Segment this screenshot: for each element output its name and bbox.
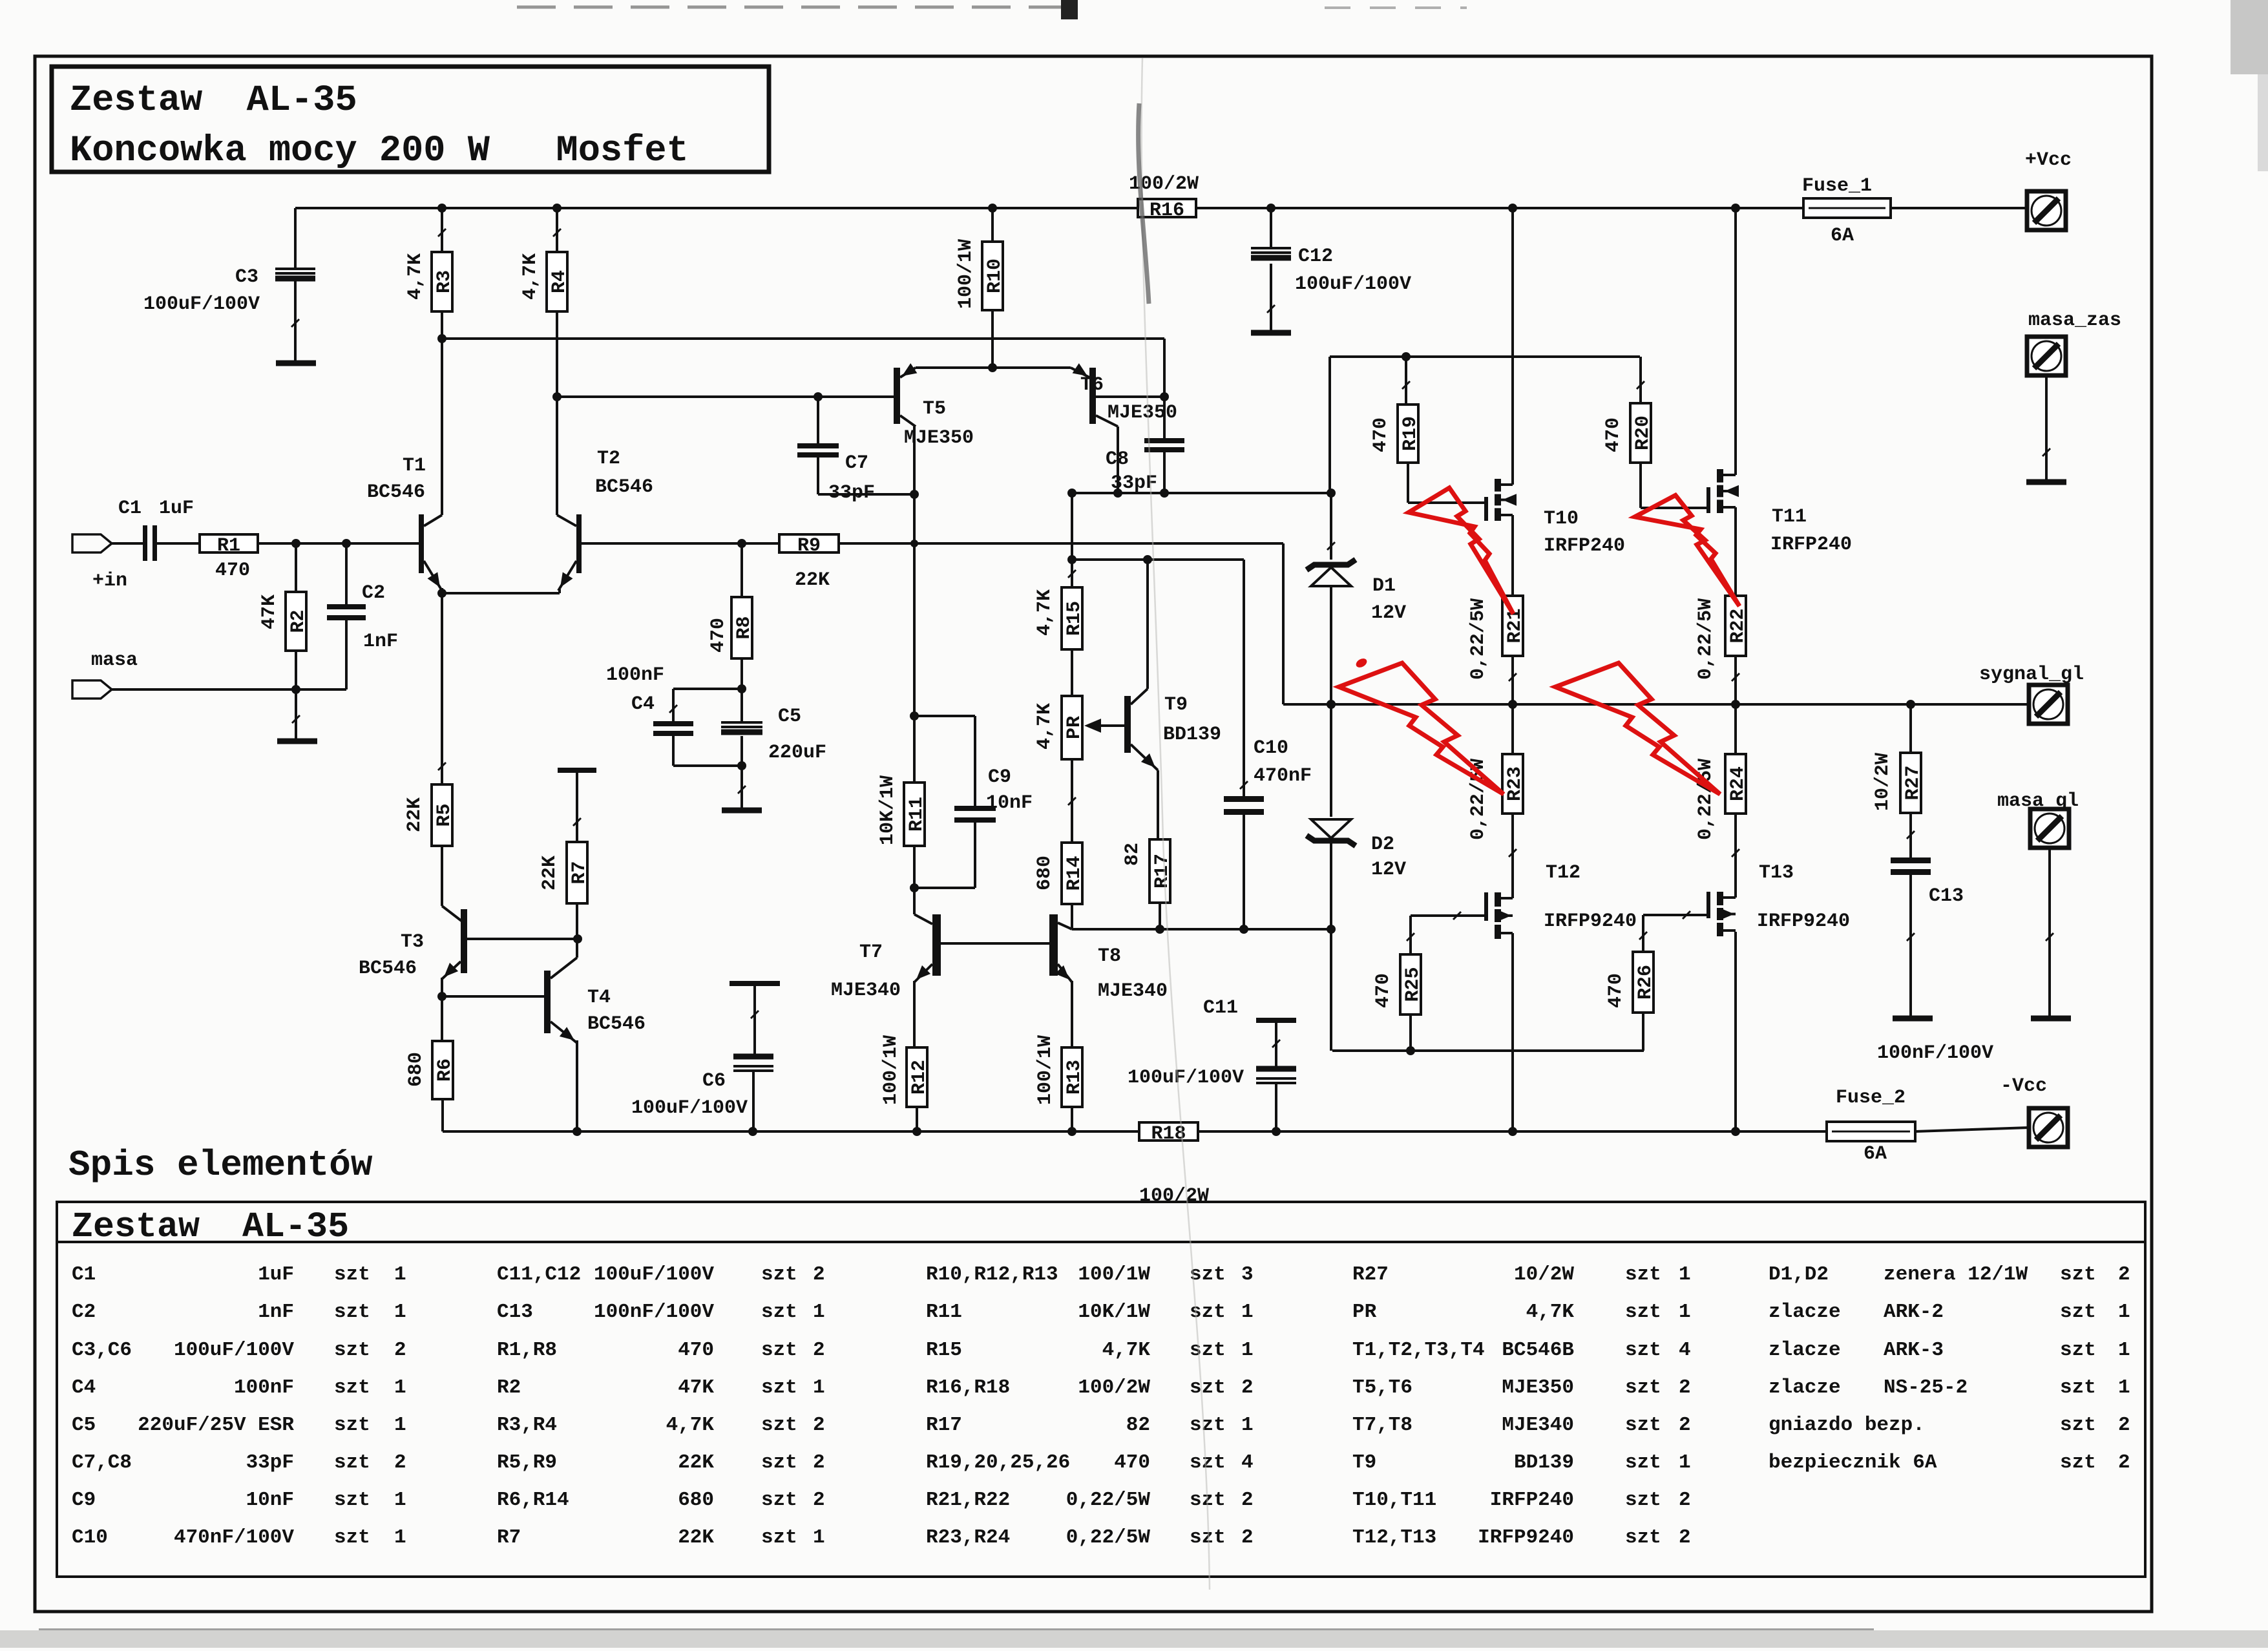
- svg-text:2: 2: [1679, 1489, 1691, 1511]
- table row c1 r4: [72, 1376, 406, 1399]
- wire T6 collector diag: [1096, 415, 1118, 426]
- wire R3 top: [441, 208, 443, 252]
- label sygnal_gl: [1979, 664, 2084, 686]
- label D2 value: [1371, 859, 1406, 881]
- connector -Vcc: [2029, 1108, 2068, 1147]
- connector +in: [72, 534, 112, 552]
- svg-text:C5: C5: [72, 1414, 96, 1436]
- resistor R6: [432, 1041, 456, 1099]
- wire T13 gate line: [1643, 911, 1708, 919]
- connector masa_gl: [2030, 809, 2069, 848]
- wire masa_gl stem: [2046, 848, 2053, 1016]
- svg-text:100uF/100V: 100uF/100V: [631, 1097, 748, 1119]
- svg-text:100/1W: 100/1W: [1034, 1035, 1056, 1105]
- label R15 value: [1034, 589, 1056, 636]
- svg-text:T12: T12: [1546, 862, 1580, 884]
- svg-text:470: 470: [708, 618, 730, 653]
- svg-text:szt: szt: [761, 1263, 797, 1286]
- wire R23 top: [1511, 704, 1514, 754]
- wire C7 bottom: [818, 457, 914, 494]
- label R16 value: [1129, 173, 1199, 195]
- svg-text:12V: 12V: [1371, 602, 1406, 624]
- svg-text:szt: szt: [334, 1451, 370, 1474]
- svg-text:R5: R5: [434, 803, 456, 826]
- wire C12 top stem: [1270, 208, 1272, 247]
- table row c1 r7: [72, 1489, 406, 1511]
- label R8 value: [708, 618, 730, 653]
- label Fuse_2: [1836, 1087, 1906, 1109]
- table row c4 r6: [1352, 1451, 1691, 1474]
- title box: [52, 67, 769, 172]
- wire R20 stem top: [1637, 357, 1644, 403]
- wire R19 stem top: [1402, 357, 1410, 405]
- wire T3 emitter diag: [442, 962, 461, 979]
- table row c4 r3: [1352, 1339, 1691, 1362]
- svg-text:T10: T10: [1544, 508, 1579, 530]
- label masa_gl: [1997, 790, 2079, 812]
- wire C6 top stem: [751, 986, 759, 1054]
- svg-text:R27: R27: [1902, 765, 1924, 800]
- wire T9 emitter: [1131, 744, 1158, 839]
- label T4 type: [587, 1013, 646, 1035]
- wire R20 to T11 gate: [1641, 463, 1706, 508]
- label R9 value: [795, 569, 830, 591]
- svg-text:-Vcc: -Vcc: [2000, 1075, 2047, 1097]
- wire T1 collector net to C8: [442, 337, 1164, 340]
- label R21 value: [1467, 598, 1489, 680]
- label T5: [923, 398, 946, 420]
- wire R25 bottom stem: [1409, 1015, 1412, 1051]
- label R25 value: [1372, 973, 1394, 1008]
- svg-text:szt: szt: [1625, 1301, 1661, 1323]
- table row c5 r2: [1769, 1301, 2130, 1323]
- capacitor C1: [143, 525, 157, 561]
- label R22 value: [1695, 598, 1717, 680]
- label D1: [1372, 575, 1396, 597]
- node output-chain: [1327, 700, 1336, 709]
- svg-text:100/2W: 100/2W: [1078, 1376, 1150, 1399]
- svg-text:100uF/100V: 100uF/100V: [594, 1263, 714, 1286]
- label +Vcc: [2025, 149, 2072, 171]
- svg-text:1: 1: [1241, 1414, 1254, 1436]
- svg-text:22K: 22K: [678, 1526, 714, 1549]
- label R20 value: [1602, 417, 1624, 452]
- node emitters T5 T6: [988, 363, 997, 372]
- resistor R4: [547, 252, 571, 311]
- resistor R25: [1400, 954, 1424, 1015]
- fuse Fuse_1: [1803, 198, 1891, 218]
- wire T12 gate line: [1411, 912, 1484, 920]
- svg-text:R6,R14: R6,R14: [497, 1489, 569, 1511]
- wire output line: [1283, 703, 2029, 706]
- node masa-R2: [291, 685, 300, 694]
- label C13 value: [1877, 1042, 1993, 1064]
- label T3: [401, 931, 424, 953]
- wire R27 to C13: [1907, 813, 1915, 857]
- svg-text:470: 470: [215, 560, 250, 582]
- node T4 base: [437, 992, 446, 1001]
- svg-text:T1,T2,T3,T4: T1,T2,T3,T4: [1352, 1339, 1485, 1362]
- svg-text:1uF: 1uF: [258, 1263, 294, 1286]
- wire masa_zas stem: [2042, 375, 2050, 479]
- table row c3 r7: [926, 1489, 1254, 1511]
- svg-text:R3: R3: [434, 270, 456, 293]
- svg-text:1: 1: [1241, 1339, 1254, 1362]
- svg-text:C10: C10: [1254, 737, 1288, 759]
- svg-text:MJE340: MJE340: [1502, 1414, 1574, 1436]
- transistor T6: [1089, 368, 1096, 424]
- fold crease: [1139, 58, 1210, 1590]
- label C1: [118, 498, 142, 520]
- svg-text:T6: T6: [1080, 374, 1104, 396]
- label R17 value: [1122, 843, 1144, 866]
- wire T2 emitter diag: [558, 561, 576, 591]
- wire R8 top: [740, 543, 743, 597]
- svg-text:IRFP9240: IRFP9240: [1478, 1526, 1574, 1549]
- svg-text:10nF: 10nF: [986, 792, 1033, 814]
- svg-text:C1: C1: [118, 498, 142, 520]
- svg-text:R22: R22: [1727, 608, 1749, 643]
- svg-text:R3,R4: R3,R4: [497, 1414, 557, 1436]
- label T1: [403, 455, 426, 477]
- svg-text:C8: C8: [1106, 448, 1129, 470]
- ground masa_gl: [2031, 1016, 2071, 1022]
- table row c4 r4: [1352, 1376, 1691, 1399]
- label R1 value: [215, 560, 250, 582]
- svg-text:1: 1: [1679, 1263, 1691, 1286]
- svg-text:+in: +in: [92, 570, 127, 592]
- ground C3: [276, 361, 316, 366]
- capacitor C2: [327, 607, 366, 618]
- svg-text:D1: D1: [1372, 575, 1396, 597]
- label Fuse_2 rating: [1864, 1143, 1887, 1165]
- svg-text:100/1W: 100/1W: [955, 239, 977, 309]
- resistor R7: [567, 842, 591, 903]
- svg-text:2: 2: [1679, 1526, 1691, 1549]
- svg-text:zlacze: zlacze: [1769, 1301, 1841, 1323]
- wire T10 drain: [1511, 208, 1514, 485]
- svg-text:100uF/100V: 100uF/100V: [143, 293, 260, 315]
- svg-text:22K: 22K: [539, 856, 561, 890]
- svg-text:R1,R8: R1,R8: [497, 1339, 557, 1362]
- table row c4 r7: [1352, 1489, 1691, 1511]
- node rail-C12: [1266, 204, 1276, 213]
- svg-text:4,7K: 4,7K: [666, 1414, 715, 1436]
- table outer box: [57, 1202, 2145, 1577]
- label T11: [1772, 506, 1807, 528]
- svg-text:100uF/100V: 100uF/100V: [174, 1339, 294, 1362]
- svg-text:T13: T13: [1759, 862, 1794, 884]
- svg-text:szt: szt: [761, 1414, 797, 1436]
- table row c2 r6: [497, 1451, 825, 1474]
- wire C8 vertical top: [1163, 339, 1166, 438]
- table row c4 r5: [1352, 1414, 1691, 1436]
- svg-text:szt: szt: [334, 1414, 370, 1436]
- label T4: [587, 987, 611, 1009]
- svg-text:zlacze: zlacze: [1769, 1339, 1841, 1362]
- label C13: [1929, 885, 1964, 907]
- wire R1 to T1 base: [258, 542, 419, 545]
- svg-text:2: 2: [813, 1339, 825, 1362]
- ground masa_zas: [2026, 479, 2066, 485]
- label C7: [845, 452, 868, 474]
- label C10 value: [1254, 765, 1312, 787]
- transistor T10 (MOSFET): [1484, 479, 1517, 521]
- resistor R13: [1062, 1047, 1086, 1107]
- wire T8 collector diag: [1058, 923, 1072, 929]
- svg-text:22K: 22K: [795, 569, 830, 591]
- wire R26 stem: [1639, 915, 1647, 952]
- wire driver bus: [1072, 492, 1331, 494]
- node rail-R12: [912, 1127, 921, 1136]
- label T11 type: [1770, 534, 1852, 556]
- svg-text:T4: T4: [587, 987, 611, 1009]
- svg-text:C7,C8: C7,C8: [72, 1451, 132, 1474]
- wire C7 top stem: [817, 397, 819, 443]
- svg-text:R19,20,25,26: R19,20,25,26: [926, 1451, 1070, 1474]
- wire ground stem: [292, 689, 300, 739]
- wire C4 branch: [669, 689, 742, 721]
- svg-text:22K: 22K: [404, 797, 426, 832]
- svg-text:2: 2: [1679, 1376, 1691, 1399]
- wire R6 to rail: [441, 1099, 444, 1131]
- red dot mark: [1354, 657, 1369, 669]
- table row c3 r3: [926, 1339, 1254, 1362]
- svg-text:szt: szt: [1190, 1414, 1226, 1436]
- label R24 value: [1695, 759, 1717, 840]
- svg-text:1: 1: [394, 1376, 406, 1399]
- wire R21 bottom: [1509, 656, 1517, 704]
- svg-text:R20: R20: [1632, 415, 1654, 450]
- wire T7 collector diag: [914, 914, 932, 924]
- svg-text:szt: szt: [1625, 1451, 1661, 1474]
- svg-text:T12,T13: T12,T13: [1352, 1526, 1436, 1549]
- label C3: [235, 266, 258, 288]
- svg-text:4,7K: 4,7K: [1102, 1339, 1151, 1362]
- svg-text:470nF: 470nF: [1254, 765, 1312, 787]
- zener D1: [1307, 560, 1356, 586]
- wire C5 bottom: [740, 736, 743, 766]
- wire +Vcc rail left: [295, 207, 1138, 209]
- wire R15 to PR: [1071, 649, 1073, 696]
- label C6 value: [631, 1097, 748, 1119]
- svg-text:R11: R11: [906, 797, 928, 832]
- svg-text:2: 2: [813, 1451, 825, 1474]
- svg-text:R16,R18: R16,R18: [926, 1376, 1010, 1399]
- wire T9 base arrow: [1084, 719, 1124, 733]
- wire C10 top stem: [1240, 560, 1248, 796]
- table row c5 r6: [1769, 1451, 2130, 1474]
- svg-text:C11: C11: [1203, 997, 1238, 1019]
- svg-text:szt: szt: [334, 1339, 370, 1362]
- svg-text:4,7K: 4,7K: [404, 253, 426, 300]
- label R6 value: [405, 1052, 427, 1087]
- transistor T12 (MOSFET): [1484, 892, 1513, 939]
- table row c2 r5: [497, 1414, 825, 1436]
- wire R14 bottom: [1071, 904, 1073, 929]
- resistor R5: [432, 784, 456, 846]
- wire R24 bottom: [1732, 814, 1739, 898]
- svg-text:2: 2: [394, 1339, 406, 1362]
- heading Spis elementow: [68, 1144, 373, 1186]
- label T10 type: [1544, 535, 1625, 557]
- svg-text:1: 1: [813, 1376, 825, 1399]
- svg-text:680: 680: [1034, 856, 1056, 890]
- label T10: [1544, 508, 1579, 530]
- svg-text:IRFP240: IRFP240: [1544, 535, 1625, 557]
- resistor R14: [1062, 843, 1086, 904]
- node R8 top: [737, 539, 746, 548]
- svg-text:szt: szt: [761, 1301, 797, 1323]
- svg-text:100nF: 100nF: [606, 664, 664, 686]
- wire R3 bottom to T1 collector: [438, 229, 446, 515]
- label C11 value: [1128, 1067, 1244, 1089]
- svg-text:MJE340: MJE340: [1098, 980, 1168, 1002]
- node rail-R13: [1067, 1127, 1076, 1136]
- wire C45 ground stem: [738, 766, 746, 808]
- label R19 value: [1370, 417, 1392, 452]
- wire T5 collector diag: [900, 415, 916, 426]
- node C5 top: [737, 684, 746, 693]
- svg-text:0,22/5W: 0,22/5W: [1467, 598, 1489, 680]
- svg-text:1: 1: [2118, 1376, 2130, 1399]
- wire T13 drain down: [1734, 932, 1737, 1131]
- svg-text:R19: R19: [1400, 416, 1422, 451]
- svg-text:MJE350: MJE350: [1108, 402, 1177, 424]
- node R4-T5 base line: [552, 392, 562, 401]
- svg-text:C2: C2: [72, 1301, 96, 1323]
- zener D2: [1307, 819, 1356, 846]
- svg-text:szt: szt: [1625, 1489, 1661, 1511]
- svg-text:0,22/5W: 0,22/5W: [1066, 1489, 1151, 1511]
- wire T8 emitter diag: [1055, 964, 1072, 982]
- node chain-output: [1327, 700, 1336, 709]
- svg-text:0,22/5W: 0,22/5W: [1066, 1526, 1151, 1549]
- label R4 value: [520, 253, 541, 300]
- svg-text:1: 1: [1679, 1301, 1691, 1323]
- svg-text:BC546: BC546: [359, 958, 417, 980]
- svg-text:R9: R9: [797, 535, 821, 557]
- table row c4 r8: [1352, 1526, 1691, 1549]
- table header line: [57, 1241, 2145, 1243]
- wire T12 drain down: [1511, 933, 1514, 1131]
- svg-text:szt: szt: [334, 1526, 370, 1549]
- svg-text:szt: szt: [1190, 1376, 1226, 1399]
- svg-text:szt: szt: [1625, 1414, 1661, 1436]
- svg-text:R16: R16: [1150, 200, 1184, 222]
- svg-text:10/2W: 10/2W: [1514, 1263, 1574, 1286]
- label C3 value: [143, 293, 260, 315]
- title text line 1: [70, 80, 357, 121]
- svg-text:Koncowka mocy 200 W Mosfet: Koncowka mocy 200 W Mosfet: [70, 131, 689, 172]
- svg-text:zlacze: zlacze: [1769, 1376, 1841, 1399]
- label D2: [1371, 834, 1394, 856]
- wire T6 emitter diag: [1071, 363, 1089, 377]
- table row c3 r2: [926, 1301, 1254, 1323]
- svg-text:1: 1: [394, 1489, 406, 1511]
- label C1 value: [159, 498, 194, 520]
- resistor R1: [200, 534, 258, 557]
- svg-text:R11: R11: [926, 1301, 962, 1323]
- svg-text:gniazdo bezp.: gniazdo bezp.: [1769, 1414, 1925, 1436]
- svg-text:100nF: 100nF: [234, 1376, 294, 1399]
- connector +Vcc: [2027, 191, 2066, 230]
- node rail-T13: [1731, 1127, 1740, 1136]
- svg-text:C6: C6: [702, 1070, 726, 1092]
- svg-text:1uF: 1uF: [159, 498, 194, 520]
- capacitor C8: [1144, 441, 1184, 450]
- svg-text:ARK-2: ARK-2: [1884, 1301, 1944, 1323]
- table row c3 r1: [926, 1263, 1254, 1286]
- wire T1 emitter diag: [424, 561, 442, 591]
- node R19 top: [1402, 352, 1411, 361]
- svg-text:R7: R7: [497, 1526, 521, 1549]
- transistor T8: [1049, 914, 1058, 976]
- wire R5 to T3: [442, 846, 461, 921]
- svg-text:D1,D2: D1,D2: [1769, 1263, 1829, 1286]
- wire D1 to D2: [1330, 586, 1332, 817]
- node R11 bottom: [910, 883, 919, 892]
- wire C3 top: [294, 208, 297, 268]
- wire gate top line: [1330, 355, 1640, 358]
- svg-text:szt: szt: [761, 1526, 797, 1549]
- ground input: [277, 739, 317, 744]
- svg-text:1: 1: [394, 1526, 406, 1549]
- wire R25 stem: [1407, 916, 1414, 954]
- wire T6 collector vertical: [1117, 426, 1119, 493]
- svg-text:C5: C5: [778, 706, 801, 728]
- wire T4 emitter down: [576, 1040, 578, 1131]
- wire C3 bottom: [291, 281, 299, 361]
- wire PR to R14: [1068, 759, 1076, 843]
- table row c5 r4: [1769, 1376, 2130, 1399]
- svg-text:T10,T11: T10,T11: [1352, 1489, 1436, 1511]
- svg-text:R21,R22: R21,R22: [926, 1489, 1010, 1511]
- transistor T5: [894, 368, 900, 424]
- table row c3 r5: [926, 1414, 1254, 1436]
- wire masa line: [112, 688, 346, 691]
- wire R7 top: [573, 773, 581, 842]
- wire R27 top: [1909, 704, 1912, 753]
- label T1 type: [367, 481, 425, 503]
- wire +Vcc rail right: [1891, 207, 2027, 209]
- rail tap R7: [558, 768, 596, 773]
- wire R17 bottom: [1159, 903, 1161, 929]
- label +in: [92, 570, 127, 592]
- svg-text:2: 2: [1241, 1489, 1254, 1511]
- svg-text:470: 470: [1602, 417, 1624, 452]
- svg-text:BC546: BC546: [595, 476, 653, 498]
- node lineA-T5col: [910, 540, 918, 547]
- wire T11 source: [1734, 507, 1737, 596]
- label C5: [778, 706, 801, 728]
- svg-text:4,7K: 4,7K: [1034, 703, 1056, 750]
- resistor R2: [286, 592, 310, 651]
- svg-text:R12: R12: [908, 1060, 930, 1095]
- svg-text:MJE340: MJE340: [831, 980, 901, 1002]
- wire C9 bottom stub: [914, 823, 975, 888]
- wire -Vcc rail left: [443, 1130, 1139, 1133]
- svg-text:T9: T9: [1164, 694, 1188, 716]
- wire T5 emitter diag: [900, 363, 917, 377]
- svg-text:470: 470: [1114, 1451, 1150, 1474]
- svg-text:BC546B: BC546B: [1502, 1339, 1574, 1362]
- svg-text:2: 2: [813, 1414, 825, 1436]
- svg-text:100nF/100V: 100nF/100V: [594, 1301, 714, 1323]
- label T12 type: [1544, 910, 1637, 932]
- svg-text:szt: szt: [334, 1301, 370, 1323]
- svg-text:zenera 12/1W: zenera 12/1W: [1884, 1263, 2028, 1286]
